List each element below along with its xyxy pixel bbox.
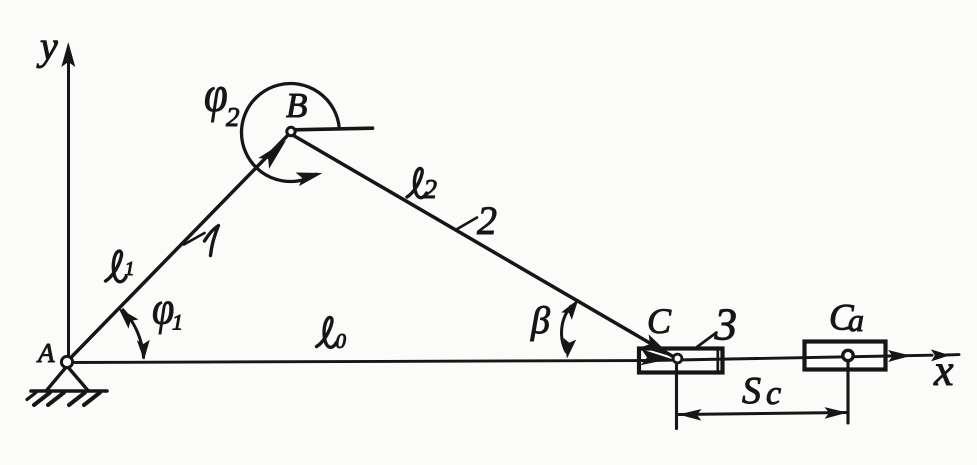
svg-text:c: c xyxy=(766,375,781,412)
svg-text:A: A xyxy=(36,338,55,368)
svg-text:1: 1 xyxy=(172,310,183,335)
svg-text:y: y xyxy=(36,24,58,69)
svg-text:2: 2 xyxy=(477,198,497,243)
svg-text:C: C xyxy=(647,301,672,341)
svg-text:2: 2 xyxy=(424,174,438,204)
svg-text:x: x xyxy=(933,346,954,395)
svg-text:β: β xyxy=(530,300,550,342)
svg-text:0: 0 xyxy=(336,329,347,353)
svg-text:S: S xyxy=(742,370,761,412)
svg-text:B: B xyxy=(286,86,307,125)
svg-text:a: a xyxy=(848,302,864,338)
svg-text:φ: φ xyxy=(204,67,228,123)
svg-text:1: 1 xyxy=(125,258,135,280)
svg-text:2: 2 xyxy=(226,102,240,132)
svg-text:3: 3 xyxy=(714,300,738,350)
svg-text:φ: φ xyxy=(152,282,174,335)
